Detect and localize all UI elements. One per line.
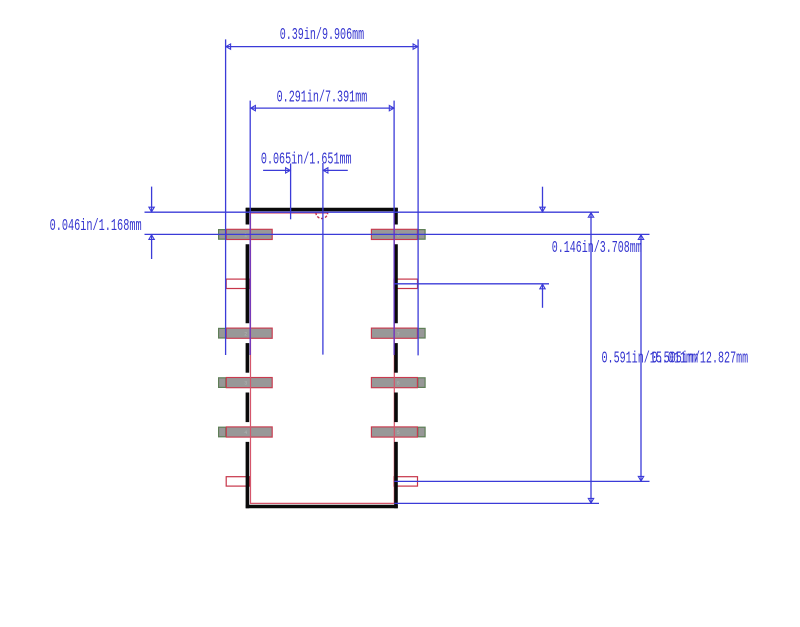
arrow 0.065in right leader (points left) [323,168,328,173]
svg-text:0.39in/9.906mm: 0.39in/9.906mm [280,26,365,45]
svg-text:0.065in/1.651mm: 0.065in/1.651mm [261,151,352,170]
arrow 0.046in bottom (points up) [149,235,154,240]
svg-text:3: 3 [244,380,247,387]
extension line pad outer right x=418.1 [417,39,419,355]
arrowheads (open triangles, blue) [149,44,644,503]
pad 3 (left row 4) [219,378,273,388]
dimension 0.146in vertical leader top [542,187,544,213]
arrow 0.505in top (points up) [638,235,643,240]
pad 6 (right row 4) [371,378,425,388]
svg-text:6: 6 [397,380,400,387]
svg-text:0.505in/12.827mm: 0.505in/12.827mm [652,350,749,369]
arrow right end of 0.291in dim [389,105,394,110]
svg-text:0.146in/3.708mm: 0.146in/3.708mm [552,239,642,258]
dimension line 0.505in vertical [640,234,642,481]
dimension 0.046in vertical leader bottom [151,234,153,259]
arrow right end of 0.39in dim [413,44,418,49]
dimension line 0.39in overall width [226,46,419,48]
arrow 0.505in bottom (points down) [638,476,643,481]
silk left edge segments [246,208,250,225]
silk top edge [246,208,398,212]
pad 4 (left row 5) [219,427,273,437]
silkscreen body outline (black, gaps at pads) [246,208,398,509]
dimension 0.065in right leader [323,169,348,171]
arrow 0.046in top (points down) [149,207,154,212]
unpopulated pad position left (red outline) y=283.8 [226,279,250,288]
extension line pad outer left x=225.6 [225,39,227,355]
pad 7 (right row 3) [371,328,425,338]
unpopulated pad position right (red outline) y=481.4 [394,477,418,486]
silk right edge segments [394,208,398,225]
dimension 0.065in left leader [263,169,291,171]
dimension 0.146in vertical leader bottom [542,284,544,308]
dimension line 0.291in body width [250,107,394,109]
pad 5 (right row 5) [371,427,425,437]
arrow 0.591in top (points up) [588,213,593,218]
svg-text:7: 7 [397,330,400,337]
pad 8 (top-right) [371,229,425,239]
extension line pad row1 y=234.4 [145,233,650,235]
fabrication body outline (red, open top) [251,213,395,503]
pad 2 (left row 3) [219,328,273,338]
arrow 0.591in bottom (points down) [588,498,593,503]
pad 1 (top-left) [219,229,273,239]
dimension annotations (blue) [145,39,650,503]
arrow left end of 0.291in dim [251,105,256,110]
arrow left end of 0.39in dim [226,44,231,49]
arrow 0.146in top (points down) [540,207,545,212]
extension line body bottom y=503.4 [394,502,599,504]
arrow 0.146in bottom (points up) [540,284,545,289]
extension line row6 y=481.4 [394,480,649,482]
fabrication top edge segment [251,212,328,214]
extension line center x=322.9 [322,163,324,355]
extension line body right x=394.1 [393,101,395,213]
pin-1 notch arc (dashed red) [316,213,328,219]
dimension line 0.591in vertical [590,212,592,503]
svg-text:2: 2 [244,330,247,337]
extension line x=290.6 [290,164,292,220]
silk bottom edge [246,505,398,509]
arrow 0.065in left leader (points right) [286,168,291,173]
extension line body left x=250.2 [249,101,251,213]
svg-text:0.046in/1.168mm: 0.046in/1.168mm [50,217,142,236]
dimension 0.046in vertical leader top [151,187,153,213]
unpopulated pad position right (red outline) y=283.8 [394,279,418,288]
svg-text:5: 5 [397,429,400,436]
svg-text:0.291in/7.391mm: 0.291in/7.391mm [277,88,368,107]
extension line top edge y=212.2 [145,211,600,213]
extension line row2 y=283.8 [394,283,549,285]
unpopulated pad position left (red outline) y=481.4 [226,477,250,486]
